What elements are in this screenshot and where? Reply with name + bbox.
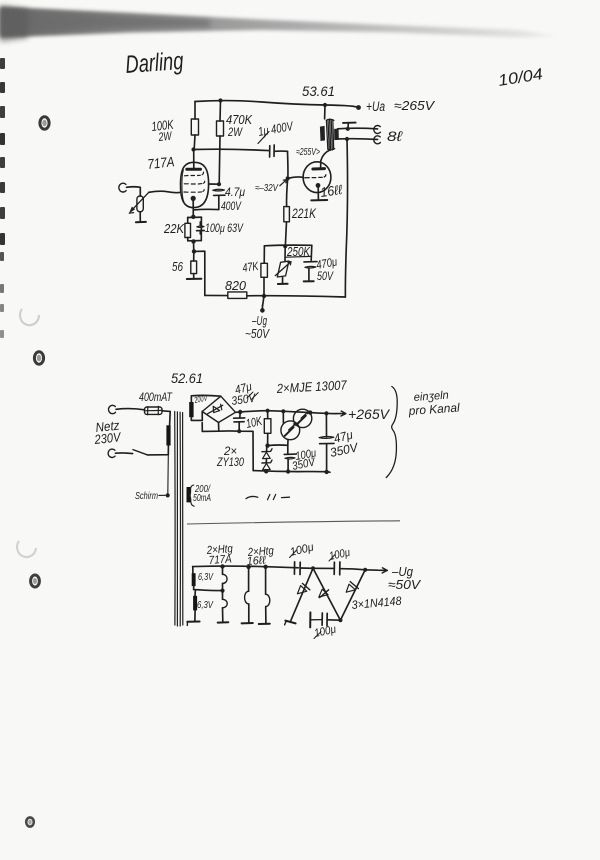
resistor 470K 2W <box>219 101 222 122</box>
ground heater winding <box>187 621 199 623</box>
svg-text:10/04: 10/04 <box>497 66 544 90</box>
zener D2 ZY130 <box>265 459 267 463</box>
svg-text:pro Kanal: pro Kanal <box>407 400 460 418</box>
transistor Q1 MJE13007 <box>293 409 311 427</box>
resistor R5 47K <box>263 277 265 296</box>
wire plate node to coupling cap <box>194 149 269 150</box>
svg-text:Schirm: Schirm <box>135 491 158 502</box>
node C7 top <box>324 411 328 415</box>
heater choke column 717A <box>222 566 224 574</box>
svg-text:16ℓℓ: 16ℓℓ <box>319 182 343 200</box>
T1 right bobbin <box>334 129 339 140</box>
node 47K-bottom rail <box>262 294 266 298</box>
brace per-channel <box>386 387 397 478</box>
wire bottom rail to right riser <box>247 296 345 297</box>
wire base node jog <box>268 444 288 447</box>
speaker terminal top <box>374 126 381 134</box>
svg-text:3×1N4148: 3×1N4148 <box>351 594 402 612</box>
Schirm terminal <box>166 493 170 497</box>
wire to fuse <box>116 409 145 410</box>
U2 grid dashes <box>305 175 326 178</box>
node doubler bottom <box>338 618 342 622</box>
svg-text:≈255V˃: ≈255V˃ <box>296 147 320 158</box>
node cathode RC top <box>191 215 195 219</box>
ground choke 1626 a <box>242 622 253 624</box>
capacitor 1u 400V coupling <box>269 146 271 157</box>
wire primary bottom to switch <box>147 446 168 455</box>
capacitor C9 100u series <box>313 567 334 569</box>
ground under 470u <box>304 280 314 282</box>
output transformer T1 primary <box>324 105 326 119</box>
wire -Ug stub <box>263 296 264 306</box>
arrow +265V <box>341 411 346 416</box>
svg-text:100μ 63V: 100μ 63V <box>205 223 244 235</box>
svg-text:50mA: 50mA <box>193 492 211 504</box>
capacitor C2 4.7u 400V <box>213 189 225 191</box>
node 470K-4.7u <box>217 182 221 186</box>
svg-text:717A: 717A <box>208 553 232 567</box>
U1 grid dashes upper <box>185 172 204 176</box>
spiral binding marks on left edge <box>0 58 5 338</box>
svg-text:820: 820 <box>225 278 247 293</box>
P1 wiper arrow <box>131 192 148 210</box>
annotation arrow -32V <box>280 180 287 186</box>
wire grid to 1626 <box>288 177 304 178</box>
secondary ground tap <box>343 122 356 124</box>
node B output junction <box>363 568 367 572</box>
ground under 56 <box>187 278 202 280</box>
T1 left bobbin <box>320 126 325 141</box>
svg-text:1μ 400V: 1μ 400V <box>257 119 295 139</box>
svg-text:ZY130: ZY130 <box>216 455 244 469</box>
svg-text:56: 56 <box>172 259 184 274</box>
svg-text:6,3V: 6,3V <box>198 572 214 583</box>
capacitor C10 100u <box>327 619 340 621</box>
svg-text:100μ: 100μ <box>313 623 338 639</box>
ground under volume pot <box>136 221 146 223</box>
wire branch to 820 rail <box>194 251 205 295</box>
wire wiper to grid <box>149 191 181 192</box>
node A doubler junction <box>311 566 315 570</box>
punched hole 3 <box>31 575 40 587</box>
resistor R3 56 <box>193 251 195 261</box>
svg-text:2W: 2W <box>227 125 243 139</box>
svg-text:100μ: 100μ <box>289 541 316 559</box>
wire plate to 4.7u node <box>209 183 219 185</box>
node rail-470K <box>218 98 222 102</box>
cathode RC network frame <box>188 216 202 218</box>
wire C9 to node B <box>340 569 365 570</box>
punched hole 4 <box>26 817 34 826</box>
transformer T2 primary winding <box>166 425 170 445</box>
ground under 1626 cathode <box>311 199 327 201</box>
node 10K top <box>266 409 270 413</box>
svg-text:≈265V: ≈265V <box>394 98 435 113</box>
embossed ghost ring 1 <box>20 309 39 325</box>
heater choke column 1626 a <box>248 567 250 591</box>
node 56-820 branch <box>192 249 196 253</box>
T1 secondary top lead <box>338 127 378 130</box>
diode D4 1N4148 <box>313 568 340 620</box>
node C6 bottom <box>286 469 290 473</box>
wire lower mains to switch <box>116 452 133 455</box>
switch S1 blade <box>133 450 147 455</box>
svg-text:2W: 2W <box>157 129 173 144</box>
potentiometer P1 volume <box>137 196 143 212</box>
capacitor C3 100u 63V <box>197 226 204 228</box>
ground under 250K pot <box>278 283 288 285</box>
wire jack to pot top <box>127 187 141 196</box>
ground choke 1626 b <box>259 623 270 625</box>
resistor R2 22K <box>185 223 191 237</box>
zener D1 ZY130 <box>266 446 268 452</box>
diode D5 1N4148 <box>340 570 365 620</box>
svg-text:350V: 350V <box>230 391 257 408</box>
node C7 bottom <box>324 470 328 474</box>
svg-text:50V: 50V <box>317 269 334 283</box>
svg-text:6,3V: 6,3V <box>197 600 214 611</box>
scan shadow band at top of page <box>0 5 556 42</box>
node grid 1626 <box>286 176 290 180</box>
wire NFB riser right side <box>345 139 347 297</box>
node secondary to NFB riser <box>345 137 349 141</box>
svg-text:400mAT: 400mAT <box>139 392 173 404</box>
ground D3 <box>285 621 295 624</box>
U1 grid dashes lower <box>184 181 204 184</box>
svg-text:400V: 400V <box>221 201 242 213</box>
wire output arrow <box>365 569 387 572</box>
svg-text:+Ua: +Ua <box>366 99 385 114</box>
svg-text:230V: 230V <box>93 429 122 447</box>
ground C10 <box>309 612 311 627</box>
svg-text:100μ: 100μ <box>328 547 352 563</box>
wire Q2 emitter down <box>287 440 289 455</box>
wire C8 to node A <box>300 567 313 569</box>
capacitor C5 47u 350V reservoir <box>239 412 241 418</box>
svg-text:10K: 10K <box>245 414 264 431</box>
punched hole 2 <box>34 352 43 364</box>
node -Ug terminal <box>260 308 265 313</box>
wire bridge plus to rail <box>236 411 268 413</box>
ground choke 717A <box>218 621 229 623</box>
node C5 top <box>238 410 242 414</box>
wire top B+ rail <box>195 101 358 108</box>
svg-text:22K: 22K <box>163 221 185 236</box>
wire bridge minus down <box>219 423 254 471</box>
wire secondary bottom return <box>191 412 202 421</box>
node zener top <box>265 443 269 447</box>
transistor Q2 MJE13007 <box>281 421 300 440</box>
U2 plate <box>313 167 325 170</box>
svg-text:200V: 200V <box>193 392 209 405</box>
wire secondary top to bridge <box>191 395 221 402</box>
node 221K bottom <box>283 244 287 248</box>
svg-text:717A: 717A <box>147 153 176 172</box>
svg-text:+265V: +265V <box>348 406 391 422</box>
T2 bias winding 200V 50mA <box>187 487 191 502</box>
node rail-transformer <box>323 103 327 107</box>
transformer T2 core laminations <box>174 412 176 626</box>
T2 heater winding 6.3V lower <box>194 590 196 596</box>
svg-text:Darling: Darling <box>124 47 184 79</box>
svg-text:4.7μ: 4.7μ <box>225 185 245 199</box>
node +Ua terminal <box>356 105 361 110</box>
U1 cathode terminal dot <box>191 196 196 201</box>
node htg3 <box>263 565 267 569</box>
speaker terminal bottom <box>374 136 381 144</box>
triode U1 717A envelope <box>180 162 208 207</box>
node Q2 collector riser <box>281 409 285 413</box>
svg-text:8ℓ: 8ℓ <box>387 128 403 144</box>
heater choke column 1626 b <box>265 567 267 594</box>
node htg1 <box>220 564 224 568</box>
continuation marks <box>246 496 258 498</box>
B1 diode symbol <box>208 405 223 414</box>
wire B+ rail to arrow <box>268 411 346 414</box>
capacitor C7 47u 350V output <box>325 413 327 437</box>
node RC bottom <box>191 239 195 243</box>
wire shield stub down <box>167 455 170 495</box>
potentiometer 250K <box>284 246 286 261</box>
wire cathode down <box>192 200 194 217</box>
svg-text:≈–32V: ≈–32V <box>255 183 279 194</box>
svg-text:53.61: 53.61 <box>302 83 335 99</box>
U1 plate <box>187 168 201 171</box>
embossed ghost ring 2 <box>17 541 36 557</box>
mains terminal upper <box>109 405 116 413</box>
capacitor C4 470u 50V <box>310 245 313 260</box>
wire centre tap <box>199 589 222 592</box>
capacitor C6 100u 350V <box>284 453 296 455</box>
node zener bottom <box>264 469 268 473</box>
wire heater top bus <box>193 566 299 568</box>
wire 0V bottom rail <box>253 471 330 473</box>
diode D3 1N4148 <box>290 568 313 621</box>
input jack terminal <box>119 183 126 192</box>
wire fuse to primary <box>162 411 170 426</box>
resistor R4 820 in bottom rail <box>205 294 228 296</box>
capacitor C8 100u series <box>293 562 295 574</box>
mains terminal lower <box>108 449 115 457</box>
svg-text:≈50V: ≈50V <box>388 577 421 592</box>
triode U2 1626 envelope <box>303 162 331 193</box>
resistor R7 10K <box>267 411 269 419</box>
wire bias node rail <box>264 244 311 247</box>
svg-text:52.61: 52.61 <box>171 370 203 386</box>
section separator line between supply and heater drawings <box>187 521 400 524</box>
wire pot bottom <box>139 212 141 222</box>
svg-text:221K: 221K <box>291 205 316 221</box>
T2 HV secondary winding 200V <box>189 402 193 417</box>
U2 cathode dot <box>316 183 321 188</box>
resistor R6 221K grid leak <box>287 151 288 206</box>
bridge rectifier B1 <box>202 396 235 422</box>
T2 heater winding 6.3V upper <box>192 567 194 574</box>
svg-text:~50V: ~50V <box>245 326 270 341</box>
T1 secondary bottom lead <box>338 138 378 141</box>
resistor 100K 2W <box>194 102 196 120</box>
svg-text:47K: 47K <box>241 259 260 275</box>
U1 cathode dashes <box>184 190 204 193</box>
svg-text:2×MJE 13007: 2×MJE 13007 <box>276 377 348 396</box>
node plate-100K <box>191 147 195 151</box>
node htg2 <box>246 565 250 569</box>
punched hole 1 <box>40 117 49 129</box>
wire RC bottom down <box>193 242 195 252</box>
fuse F1 400mAT <box>145 407 163 414</box>
